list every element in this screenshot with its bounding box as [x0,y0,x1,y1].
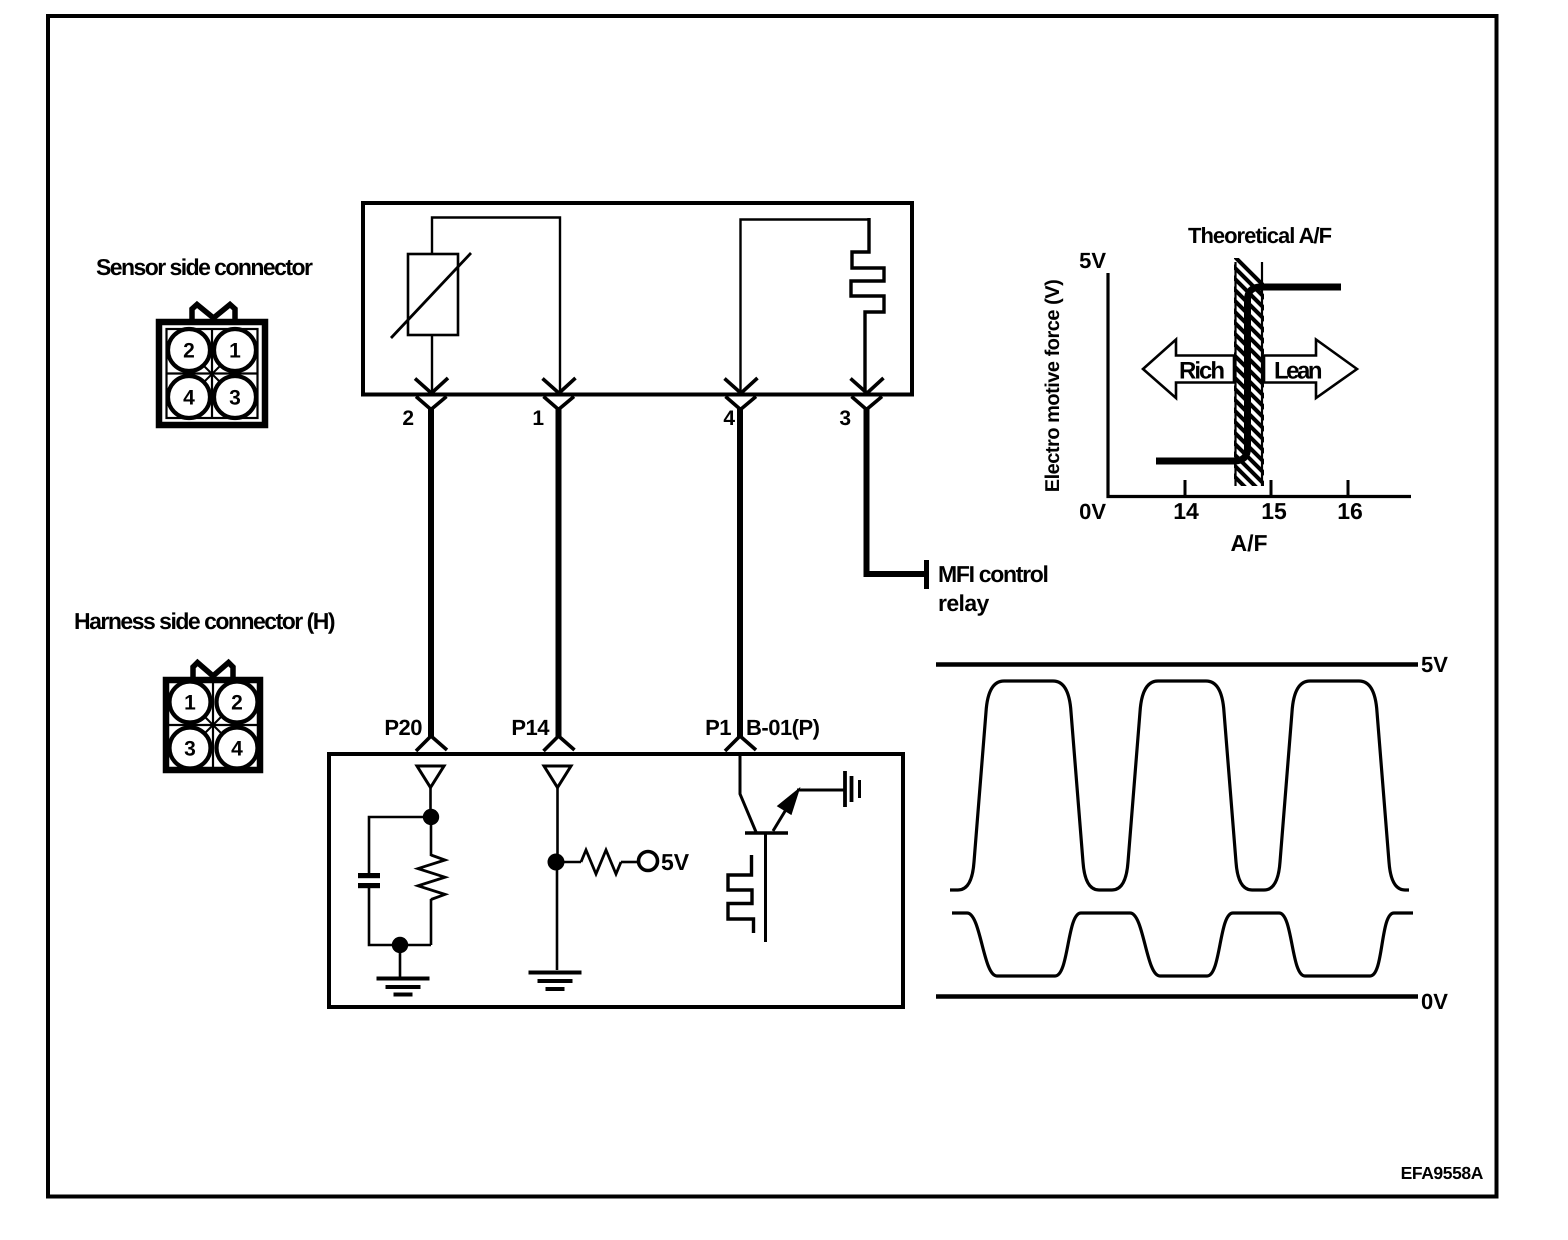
waveform: 5V reference line [936,662,1418,667]
graph: EMF step curve [1156,287,1341,461]
figure code EFA9558A [1401,1163,1484,1183]
svg-text:15: 15 [1261,498,1287,524]
junction node (P20 top) [423,809,439,825]
5V supply terminal [639,852,658,871]
junction node (P14) [548,854,565,871]
svg-text:Rich: Rich [1179,358,1224,385]
pin number 2 (sensor connector) [183,340,195,363]
terminal P20 (ECU) [416,736,447,788]
label: Sensor side connector [96,254,313,280]
svg-text:P1: P1 [705,715,731,740]
svg-text:3: 3 [839,407,851,430]
label: 5V [661,849,690,875]
pin label 3 [839,407,851,430]
wire: P1 to transistor base [740,752,756,832]
wire: P14 node [557,787,637,970]
emitter arrowhead Q1 [778,789,799,814]
pin label 2 [402,407,414,430]
svg-text:MFI control: MFI control [938,561,1048,587]
svg-text:4: 4 [723,407,735,430]
graph: x tick label 15 [1261,498,1287,524]
ground (P14) [529,973,582,990]
pin number 3 (harness connector) [184,738,196,761]
ground (chassis, right of Q1) [845,771,860,807]
arrow: Rich (left) [1143,340,1234,399]
graph: hatched band (theoretical A/F zone) [1228,250,1272,514]
graph: Theoretical A/F title [1188,223,1332,248]
pin label P1 [705,715,731,740]
terminal pin 2 (sensor box) [415,378,448,410]
wire: pin 2 to P20 [428,408,434,738]
heater drive comb (ECU side) [728,855,754,933]
svg-text:P20: P20 [384,715,422,740]
svg-text:P14: P14 [511,715,550,740]
svg-text:2: 2 [402,407,414,430]
heater element (sensor side comb) [851,218,884,391]
pin label B-01(P) [746,715,820,740]
svg-text:1: 1 [184,692,196,715]
svg-text:2: 2 [183,340,195,363]
graph: x tick label 14 [1173,498,1199,524]
terminal P1 (ECU) [725,736,756,751]
ground (P20) [377,979,430,995]
waveform: sensor output (upper trace) [950,681,1409,890]
label: Harness side connector (H) [74,608,335,634]
graph: axis labels 5V / 0V [1079,248,1106,273]
resistor R2 (horizontal zigzag) [581,850,621,874]
svg-text:B-01(P): B-01(P) [746,715,820,740]
pin number 1 (harness connector) [184,692,196,715]
svg-text:2: 2 [231,692,243,715]
wire: heater feed [741,220,870,392]
wire: sensor element loop [432,218,560,392]
label: Lean [1274,358,1322,385]
graph: axes [1108,273,1411,497]
graph: x axis title A/F [1230,530,1267,556]
wire: pin 3 to MFI control relay [867,408,927,589]
waveform: 0V reference line [936,994,1418,999]
pin number 3 (sensor connector) [229,387,241,410]
svg-text:0V: 0V [1079,499,1106,524]
pin number 4 (sensor connector) [183,387,195,410]
wire: emitter to ground [797,789,844,792]
label: Rich [1179,358,1224,385]
svg-text:16: 16 [1337,498,1363,524]
svg-text:Theoretical A/F: Theoretical A/F [1188,223,1332,248]
thermistor (sensor element) [391,253,471,338]
svg-text:Sensor side connector: Sensor side connector [96,254,313,280]
junction node (P20 bottom) [392,937,408,953]
svg-text:3: 3 [229,387,241,410]
svg-text:5V: 5V [1079,248,1106,273]
graph: y-axis title Electro motive force (V) [1042,280,1064,493]
svg-text:3: 3 [184,738,196,761]
svg-text:4: 4 [231,738,243,761]
label: 5V (waveform) [1421,652,1448,677]
svg-text:5V: 5V [1421,652,1448,677]
graph: tick 14 [1184,480,1187,497]
graph: band edges [1236,262,1263,486]
graph: tick 15 [1270,480,1273,497]
label: 0V (waveform) [1421,989,1448,1014]
pin label P14 [511,715,550,740]
svg-text:14: 14 [1173,498,1199,524]
terminal pin 4 (sensor box) [725,378,758,410]
svg-text:1: 1 [229,340,241,363]
wire: pin 4 to P1 [737,408,743,738]
svg-text:A/F: A/F [1230,530,1267,556]
svg-text:Lean: Lean [1274,358,1322,385]
graph: tick 16 [1347,480,1350,497]
svg-text:Electro motive force (V): Electro motive force (V) [1042,280,1064,493]
arrow: Lean (right) [1264,340,1357,399]
pin label P20 [384,715,422,740]
capacitor C1 [358,873,380,888]
pin label 4 [723,407,735,430]
terminal pin 3 (sensor box) [851,378,884,410]
wire: pin 1 to P14 [556,408,562,738]
svg-text:0V: 0V [1421,989,1448,1014]
svg-text:5V: 5V [661,849,690,875]
svg-text:1: 1 [532,407,544,430]
connector: harness side (4-pin) [166,663,260,771]
connector: sensor side (4-pin) [159,305,265,426]
graph: x tick label 16 [1337,498,1363,524]
svg-text:EFA9558A: EFA9558A [1401,1163,1484,1183]
wire: P20 node [369,787,431,977]
transistor Q1 [745,798,793,942]
ECU box [329,754,903,1007]
svg-text:4: 4 [183,387,195,410]
terminal pin 1 (sensor box) [543,378,576,410]
terminal P14 (ECU) [544,736,575,788]
waveform: sensor output (lower trace) [952,913,1413,976]
svg-text:relay: relay [938,590,990,616]
label: MFI control relay [938,561,1048,616]
pin number 4 (harness connector) [231,738,243,761]
pin label 1 [532,407,544,430]
resistor R1 (vertical zigzag) [418,855,445,900]
oxygen sensor box [363,203,912,395]
pin number 2 (harness connector) [231,692,243,715]
svg-text:Harness side connector (H): Harness side connector (H) [74,608,335,634]
pin number 1 (sensor connector) [229,340,241,363]
